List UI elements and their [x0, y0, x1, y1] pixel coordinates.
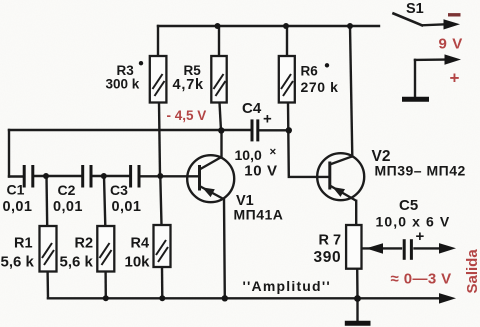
svg-text:C3: C3 [110, 182, 128, 198]
svg-text:C5: C5 [399, 197, 418, 214]
svg-text:+: + [416, 228, 425, 245]
svg-text:9 V: 9 V [439, 36, 463, 53]
svg-text:+: + [450, 69, 460, 88]
svg-text:R6: R6 [301, 64, 319, 79]
svg-text:МП41А: МП41А [234, 207, 284, 223]
svg-text:5,6 k: 5,6 k [1, 253, 35, 270]
svg-text:390: 390 [314, 249, 342, 266]
svg-text:270 k: 270 k [301, 79, 339, 95]
svg-text:≈ 0—3 V: ≈ 0—3 V [391, 271, 452, 288]
svg-text:R4: R4 [131, 236, 150, 252]
svg-text:C4: C4 [242, 100, 262, 117]
svg-text:0,01: 0,01 [3, 199, 33, 215]
svg-text:0,01: 0,01 [112, 199, 142, 215]
svg-text:C2: C2 [58, 182, 76, 198]
svg-text:×: × [270, 147, 277, 159]
svg-text:0,01: 0,01 [53, 199, 83, 215]
svg-text:C1: C1 [7, 182, 25, 198]
svg-text:R 7: R 7 [319, 232, 342, 248]
svg-text:R1: R1 [14, 236, 33, 252]
svg-text:10,0: 10,0 [235, 147, 262, 163]
svg-text:10,0 x 6 V: 10,0 x 6 V [376, 214, 451, 230]
svg-text:S1: S1 [406, 1, 424, 17]
svg-text:МП39– МП42: МП39– МП42 [375, 162, 466, 178]
svg-text:10 V: 10 V [244, 163, 277, 180]
svg-text:R5: R5 [184, 63, 202, 78]
svg-text:R2: R2 [75, 236, 94, 252]
svg-text:5,6 k: 5,6 k [60, 253, 94, 270]
svg-text:+: + [263, 111, 272, 128]
svg-text:300 k: 300 k [106, 77, 140, 92]
svg-text:10k: 10k [125, 253, 151, 270]
svg-text:Salida: Salida [464, 249, 480, 294]
svg-text:- 4,5 V: - 4,5 V [167, 108, 207, 123]
svg-text:4,7k: 4,7k [173, 77, 205, 93]
svg-text:''Amplitud'': ''Amplitud'' [243, 278, 331, 294]
